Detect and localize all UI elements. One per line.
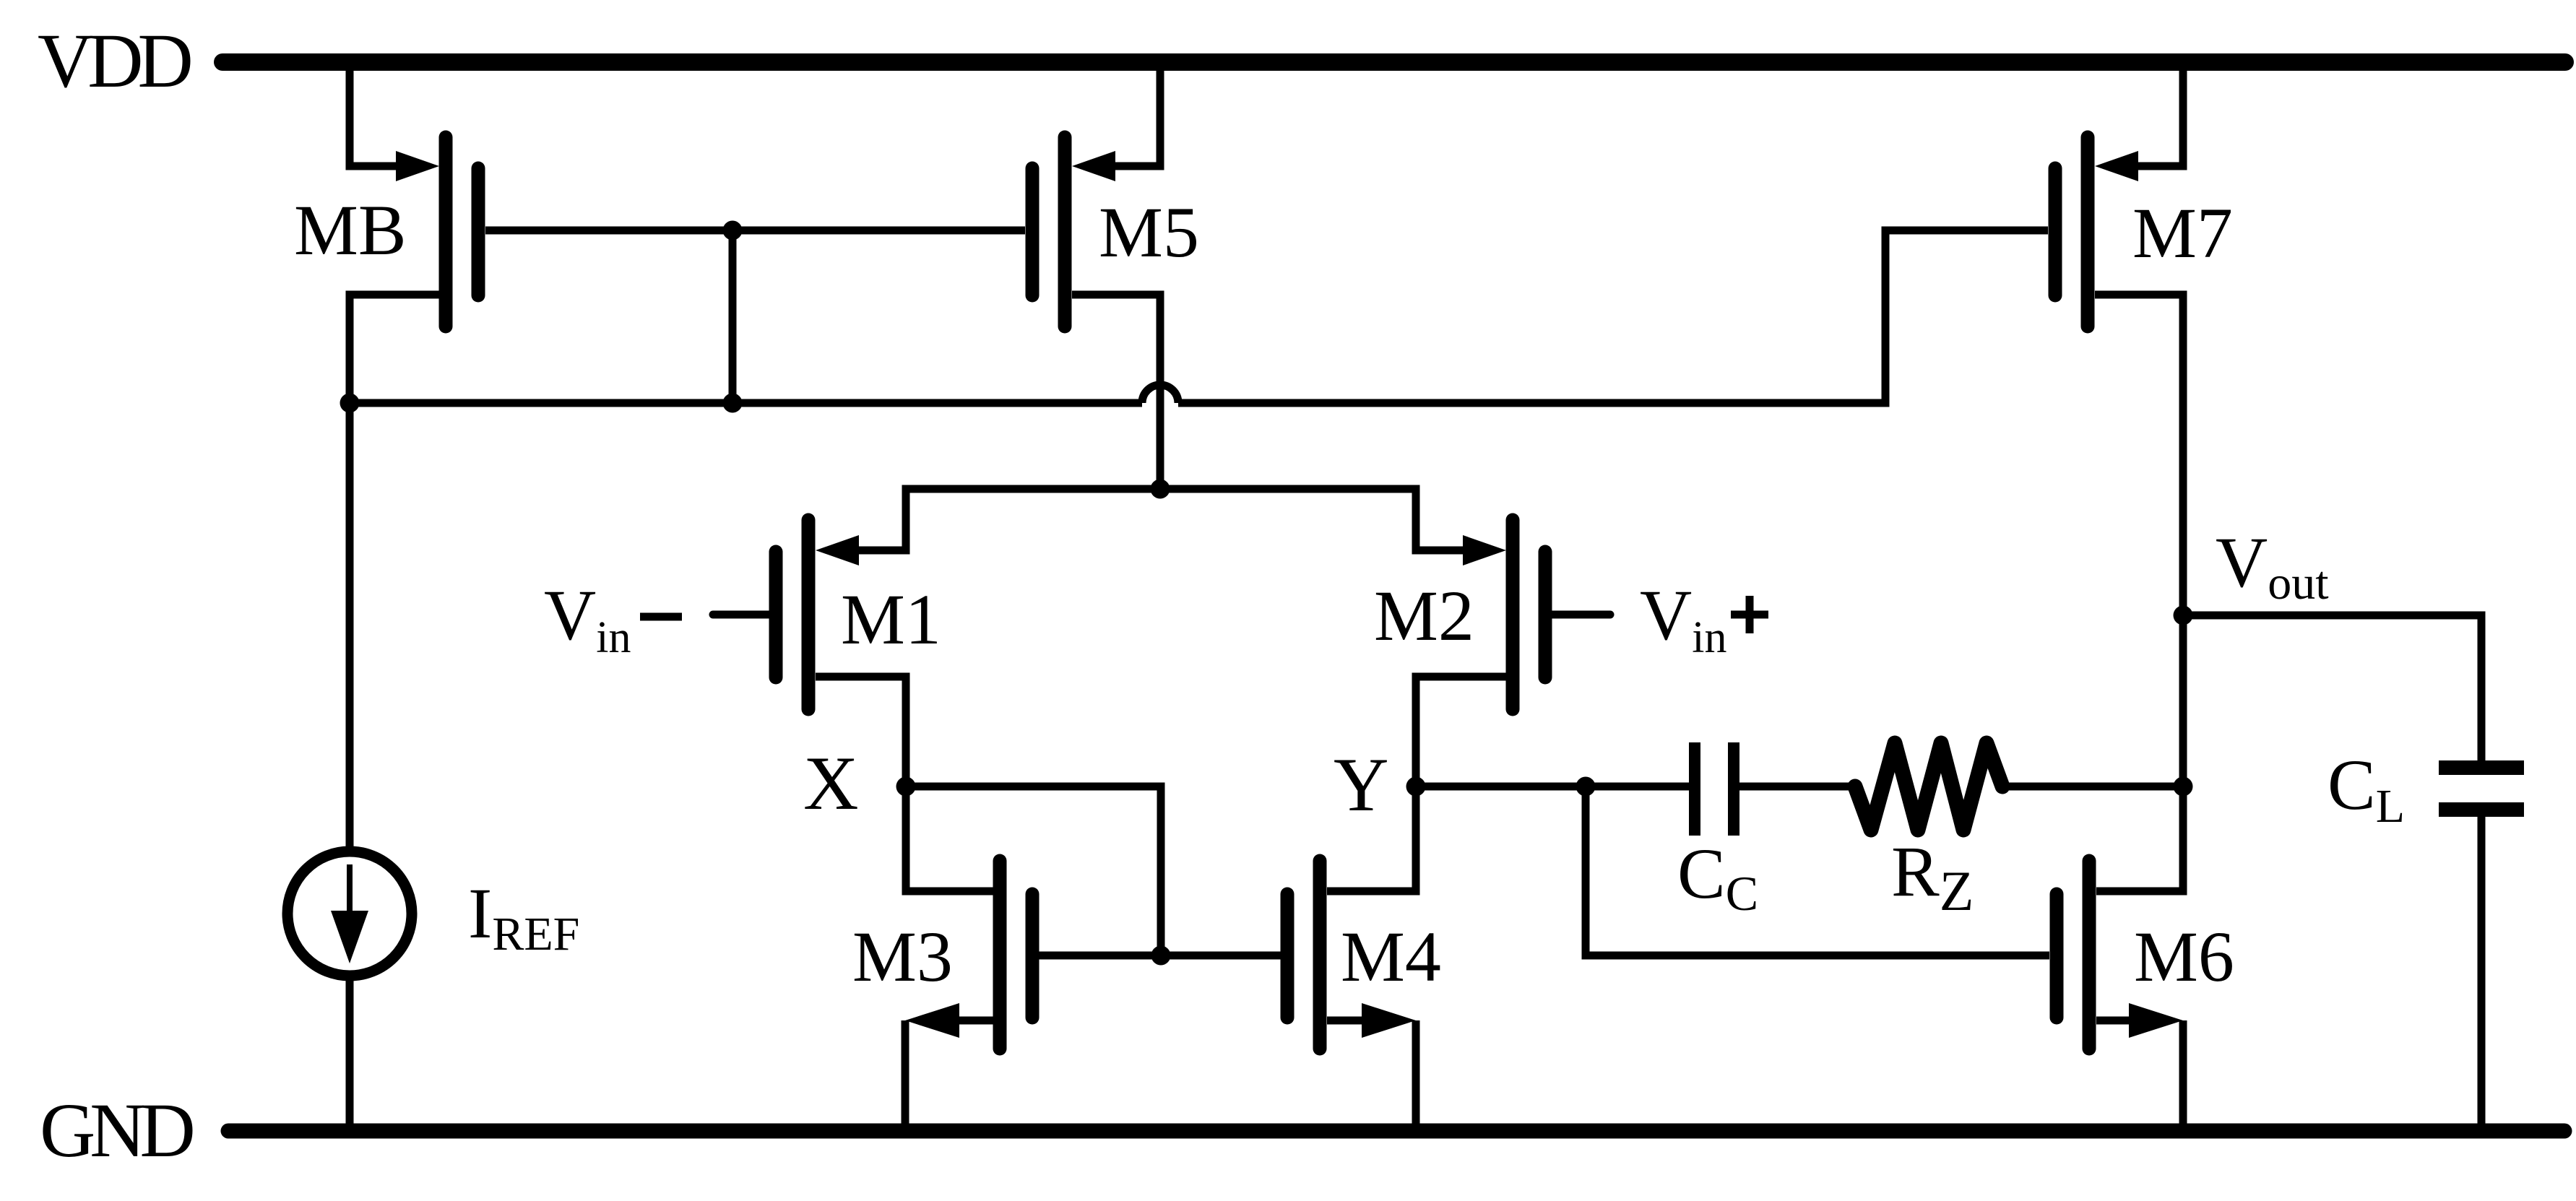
wire M1 drain to node X	[816, 677, 906, 786]
svg-text:X: X	[803, 741, 859, 825]
wire node X to mirror gate bus	[906, 786, 1161, 955]
wire M3 source to GND	[902, 1020, 909, 1131]
minus sign of Vin-	[640, 613, 682, 621]
wire node X down to M3 drain	[906, 786, 993, 891]
junction M6 gate tap	[1576, 777, 1596, 797]
wire M2 drain to node Y	[1416, 677, 1506, 786]
plus sign of Vin+	[1731, 611, 1768, 619]
wire M5 drain to tail node	[1072, 295, 1160, 489]
wire output net to M6 drain	[2096, 786, 2183, 891]
svg-text:M2: M2	[1374, 576, 1474, 656]
transistor M1	[776, 520, 859, 709]
wire M2 gate to Vin+	[1552, 611, 1610, 619]
node Y junction	[1406, 777, 1426, 797]
junction mirror gate bus	[1151, 946, 1171, 966]
svg-text:MB: MB	[294, 190, 407, 270]
wire hop over M5 drain	[1142, 385, 1178, 403]
wire MB gate to M5 gate	[485, 227, 1025, 235]
svg-text:VDD: VDD	[38, 19, 191, 104]
wire M3 gate to M4 gate	[1032, 952, 1287, 960]
wire CL to GND	[2478, 816, 2486, 1131]
bias bus wire right segment with riser to M7 gate	[1178, 230, 2048, 403]
wire M6 source to GND	[2179, 1020, 2187, 1131]
transistor M5	[1032, 137, 1115, 326]
svg-text:GND: GND	[40, 1088, 193, 1174]
wire M4 source to GND	[1412, 1020, 1420, 1131]
wire M6 gate tap down and across	[1586, 786, 2049, 955]
transistor M3	[905, 861, 1032, 1049]
wire MB drain down to bias node	[350, 295, 439, 403]
junction RZ output	[2174, 777, 2193, 797]
ground rail GND	[228, 1124, 2564, 1139]
wire M4 drain to node Y	[1327, 786, 1416, 891]
wire M7 drain to Vout	[2095, 295, 2183, 615]
transistor M6	[2057, 861, 2183, 1049]
junction MB drain bias node	[340, 394, 360, 413]
svg-text:M1: M1	[841, 579, 941, 659]
svg-text:M6: M6	[2134, 916, 2234, 997]
junction gate link bottom	[723, 394, 743, 413]
transistor M4	[1287, 861, 1416, 1049]
wire Vin- to M1 gate	[713, 611, 769, 619]
wire RZ to output node	[2002, 783, 2183, 791]
svg-text:M4: M4	[1341, 916, 1441, 997]
wire VDD to M7 source	[2135, 62, 2183, 166]
current source IREF wire from bias node	[346, 403, 354, 849]
wire node Y to compensation branch	[1416, 783, 1689, 791]
wire Vout down to output net	[2179, 615, 2187, 786]
node X junction	[896, 777, 916, 797]
resistor RZ	[1855, 743, 2002, 830]
bias bus wire left segment	[350, 399, 1142, 407]
svg-text:M3: M3	[852, 916, 953, 997]
capacitor CC	[1695, 742, 1734, 836]
wire Vout to CL	[2183, 615, 2481, 761]
junction gate link top	[723, 221, 743, 240]
svg-text:M5: M5	[1099, 192, 1199, 272]
transistor M7	[2055, 137, 2138, 326]
power rail VDD	[222, 53, 2565, 71]
transistor M2	[1463, 520, 1545, 709]
junction Vout	[2174, 606, 2193, 625]
wire VDD to M5 source	[1112, 62, 1160, 166]
wire CC to RZ	[1739, 783, 1855, 791]
wire gate link down to bias bus	[729, 230, 737, 403]
wire VDD to MB source	[350, 62, 399, 166]
svg-text:Y: Y	[1334, 742, 1389, 827]
current source IREF	[288, 851, 412, 976]
junction tail node	[1151, 480, 1170, 499]
transistor MB	[396, 137, 478, 326]
svg-text:M7: M7	[2132, 193, 2233, 273]
tail rail wire	[857, 489, 1464, 550]
wire IREF to GND	[346, 979, 354, 1131]
capacitor CL	[2439, 768, 2524, 810]
